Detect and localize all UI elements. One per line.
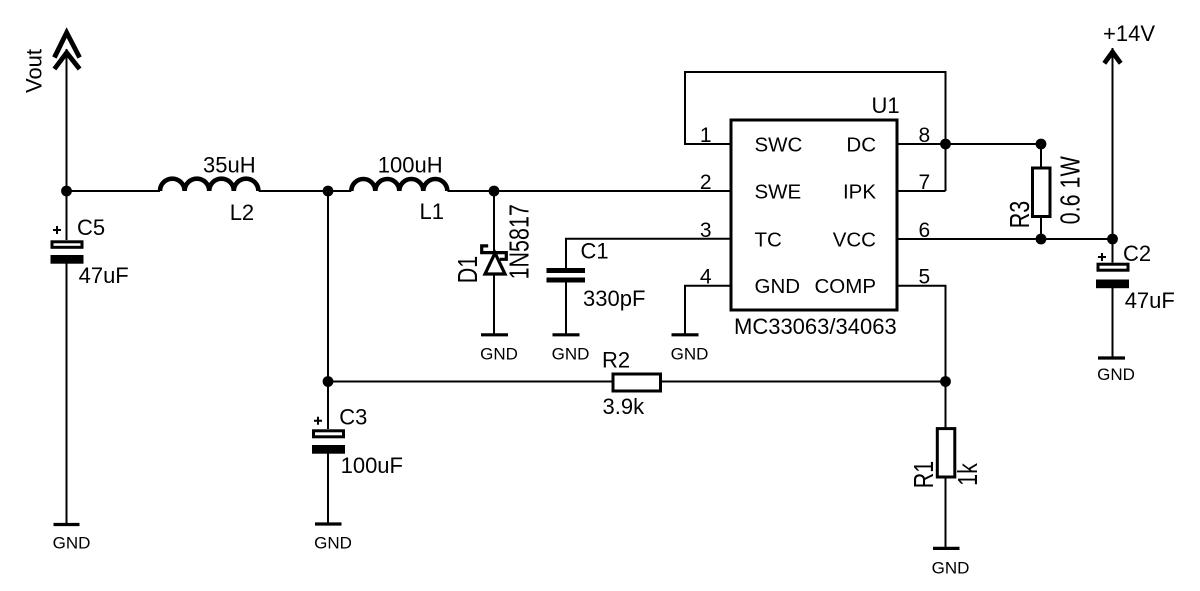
svg-text:GND: GND	[53, 534, 91, 553]
svg-text:IPK: IPK	[843, 181, 876, 204]
svg-text:R2: R2	[602, 348, 630, 373]
svg-text:L1: L1	[420, 199, 444, 224]
svg-text:R3: R3	[1006, 201, 1036, 228]
svg-text:SWE: SWE	[755, 181, 802, 204]
svg-text:0.6 1W: 0.6 1W	[1056, 156, 1086, 225]
svg-text:35uH: 35uH	[203, 153, 256, 178]
svg-text:C5: C5	[77, 215, 105, 240]
svg-text:2: 2	[700, 171, 712, 194]
svg-text:5: 5	[919, 266, 931, 289]
svg-text:GND: GND	[932, 559, 970, 578]
svg-text:R1: R1	[910, 461, 940, 488]
svg-text:8: 8	[919, 124, 931, 147]
svg-text:C2: C2	[1123, 241, 1151, 266]
svg-text:100uF: 100uF	[341, 453, 403, 478]
svg-text:DC: DC	[846, 134, 876, 157]
svg-text:C1: C1	[581, 239, 609, 264]
svg-text:SWC: SWC	[755, 134, 803, 157]
svg-text:4: 4	[700, 266, 712, 289]
svg-text:3: 3	[700, 219, 712, 242]
svg-text:100uH: 100uH	[378, 153, 443, 178]
svg-text:GND: GND	[314, 534, 352, 553]
svg-text:7: 7	[919, 171, 931, 194]
svg-text:Vout: Vout	[21, 49, 46, 93]
svg-text:GND: GND	[755, 275, 801, 298]
svg-text:3.9k: 3.9k	[603, 394, 646, 419]
svg-text:MC33063/34063: MC33063/34063	[734, 314, 897, 339]
svg-text:1: 1	[700, 124, 712, 147]
svg-text:GND: GND	[480, 345, 518, 364]
svg-text:1k: 1k	[954, 463, 984, 486]
svg-text:C3: C3	[339, 404, 367, 429]
svg-text:TC: TC	[755, 228, 783, 251]
svg-text:330pF: 330pF	[583, 286, 645, 311]
svg-text:U1: U1	[872, 93, 900, 118]
svg-text:VCC: VCC	[833, 228, 876, 251]
svg-text:GND: GND	[552, 345, 590, 364]
svg-text:GND: GND	[1097, 365, 1135, 384]
svg-text:L2: L2	[230, 200, 254, 225]
svg-text:COMP: COMP	[815, 275, 877, 298]
svg-text:D1: D1	[454, 256, 484, 283]
svg-text:6: 6	[919, 219, 931, 242]
svg-text:GND: GND	[671, 345, 709, 364]
svg-text:47uF: 47uF	[1125, 288, 1175, 313]
svg-text:+14V: +14V	[1103, 21, 1155, 46]
svg-text:1N5817: 1N5817	[505, 204, 535, 279]
svg-text:47uF: 47uF	[79, 263, 129, 288]
